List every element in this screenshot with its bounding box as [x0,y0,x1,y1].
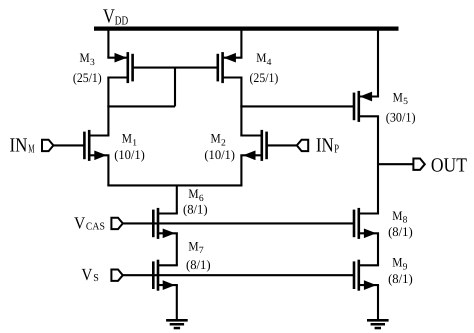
label M5 [393,89,409,107]
svg-text:V: V [74,213,86,232]
wire VCAS line to M6 and M8 gates [123,222,354,224]
svg-text:IN: IN [316,134,334,156]
label M3 [80,50,96,68]
port IN_M [42,140,53,151]
svg-text:M: M [122,131,133,146]
svg-text:(25/1): (25/1) [73,70,102,85]
transistor M2 with source arrow [240,130,268,161]
svg-text:M: M [211,131,222,146]
label VDD [103,5,128,27]
svg-text:P: P [334,141,339,155]
svg-text:M: M [188,186,199,201]
wire node A tap to diode connection [107,105,175,107]
wire M1 source to tail [107,155,109,185]
svg-text:(30/1): (30/1) [386,109,416,124]
wire IN_M to M1 gate [54,144,85,146]
transistor M4 with source arrow [217,52,243,83]
svg-text:CAS: CAS [86,221,105,232]
wire M2 source to tail [240,155,242,185]
wire tail node [107,184,242,186]
transistor M9 with source arrow [353,260,379,291]
svg-text:M: M [392,208,403,223]
label M7 value (8/1) [186,257,211,272]
VDD power rail [94,27,399,31]
port VS [111,270,122,281]
wire VDD to M3 source [107,29,109,58]
transistor M6 with source arrow [152,208,178,239]
label M4 value (25/1) [250,70,279,85]
svg-text:(10/1): (10/1) [204,147,235,162]
label M6 [188,186,204,204]
label VS [81,265,99,284]
label M5 value (30/1) [386,109,416,124]
wire tail to M6 drain [176,185,178,213]
svg-text:7: 7 [199,246,204,256]
svg-text:M: M [392,255,403,270]
svg-text:(8/1): (8/1) [186,257,211,272]
svg-text:DD: DD [115,14,128,28]
wire M3-M4 gate line [133,67,218,69]
svg-text:V: V [103,5,115,27]
svg-text:M: M [393,89,404,104]
wire M3 drain to M1 drain (node A) [107,78,109,136]
label M2 [211,131,227,149]
label OUT [431,154,467,176]
label M9 [392,255,408,273]
label M8 [392,208,408,226]
wire OUT tap [378,163,413,165]
wire VS line to M7 and M9 gates [123,274,354,276]
label M8 value (8/1) [388,224,413,239]
svg-text:(8/1): (8/1) [183,201,208,216]
label M4 [256,50,272,68]
wire M7 source to ground [176,285,178,320]
wire M8 source to M9 drain [377,233,379,265]
wire VDD to M4 source [240,29,242,58]
ground under M9 [367,319,389,329]
wire M2 gate to IN_P [267,144,298,146]
transistor M8 with source arrow [353,208,379,239]
wire M6 source to M7 drain [176,233,178,265]
svg-text:(8/1): (8/1) [388,224,413,239]
svg-text:S: S [93,273,99,284]
ground under M7 [166,319,188,329]
svg-text:V: V [81,265,93,284]
label M9 value (8/1) [388,271,413,286]
wire diode connection to gate line [174,68,176,107]
wire M4 drain to M2 drain (node B) [240,78,242,136]
svg-text:M: M [28,141,34,155]
transistor M5 with source arrow [353,91,379,122]
label M6 value (8/1) [183,201,208,216]
label M2 value (10/1) [204,147,235,162]
label M1 [122,131,138,149]
svg-text:4: 4 [267,58,272,68]
port VCAS [111,218,122,229]
label IN_P [316,134,339,156]
transistor M7 with source arrow [152,260,178,291]
transistor M3 with source arrow [107,52,134,83]
wire VDD to M5 source [377,29,379,97]
label M3 value (25/1) [73,70,102,85]
svg-text:3: 3 [90,58,95,68]
wire node B to M5 gate [240,105,354,107]
port OUT [413,159,424,170]
svg-text:IN: IN [10,134,28,156]
svg-text:(25/1): (25/1) [250,70,279,85]
transistor M1 with source arrow [83,130,109,161]
svg-text:(8/1): (8/1) [388,271,413,286]
wire M9 source to ground [377,285,379,320]
svg-text:M: M [188,238,199,253]
label M7 [188,238,204,256]
wire M5 drain to M8 drain (OUT node) [377,116,379,213]
svg-text:5: 5 [403,97,408,107]
label IN_M [10,134,35,156]
svg-text:OUT: OUT [431,154,467,176]
svg-text:M: M [256,50,267,65]
svg-text:M: M [80,50,91,65]
port IN_P [297,140,308,151]
label VCAS [74,213,105,232]
label M1 value (10/1) [114,147,145,162]
svg-text:(10/1): (10/1) [114,147,145,162]
